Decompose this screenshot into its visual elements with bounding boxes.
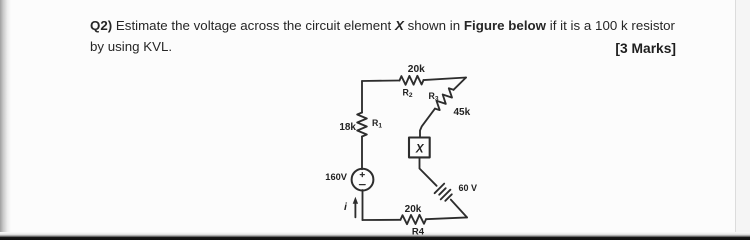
svg-text:160V: 160V [325, 172, 348, 182]
svg-text:20k: 20k [408, 64, 425, 75]
svg-text:60 V: 60 V [459, 183, 478, 193]
wire left lower (source to bottom) [362, 190, 364, 220]
svg-text:R1: R1 [372, 118, 382, 130]
question text [90, 15, 675, 58]
wire bottom left [363, 219, 401, 221]
battery V2 plate 3 (long) [441, 190, 451, 200]
svg-text:18k: 18k [339, 122, 356, 133]
svg-text:R3: R3 [429, 91, 439, 103]
wire top [362, 80, 400, 83]
wire left mid (R1 to source) [361, 137, 363, 170]
svg-text:i: i [344, 201, 348, 213]
right page edge line [736, 0, 750, 240]
wire left upper [361, 81, 363, 113]
wire R3 to X box [420, 109, 435, 138]
wire bottom right [426, 217, 467, 219]
left page-edge shadow [0, 0, 11, 240]
source V1 circle (160V) [352, 169, 374, 191]
svg-text:20k: 20k [405, 204, 422, 215]
source plus sign [360, 173, 364, 177]
wire X to battery [420, 157, 437, 185]
current arrow i [353, 197, 358, 218]
resistor R4 [401, 215, 427, 224]
svg-text:45k: 45k [454, 107, 471, 118]
battery V2 plate 4 (short) [445, 194, 452, 201]
resistor R1 [357, 113, 367, 137]
source minus sign [360, 184, 366, 186]
marks label [476, 42, 676, 56]
bottom dark band [0, 232, 750, 240]
wire top-right [424, 78, 467, 81]
svg-text:R4: R4 [412, 227, 425, 238]
resistor R2 [400, 76, 424, 85]
battery V2 plate 1 (long) [435, 184, 445, 194]
battery V2 plate 2 (short) [439, 188, 446, 195]
wire battery to bottom-right corner [451, 200, 467, 218]
wire diagonal to R3 [454, 78, 467, 90]
svg-text:X: X [415, 144, 425, 156]
svg-text:R2: R2 [403, 88, 413, 100]
element X box [409, 138, 430, 158]
resistor R3 [435, 88, 454, 110]
